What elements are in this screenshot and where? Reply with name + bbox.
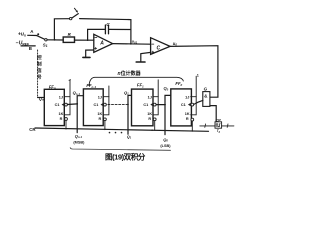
- flip-flop FF_0 box: [171, 89, 192, 126]
- svg-text:Q0: Q0: [163, 137, 168, 143]
- wire FF_n-1 JK tie: [103, 97, 109, 115]
- node Qn-1 label: [73, 90, 81, 96]
- wire FF_n reset stub: [65, 120, 67, 128]
- wire S2 to feedback corner: [80, 19, 131, 20]
- wire Qn-1 to FF_n clock: [77, 96, 83, 133]
- flip-flop FF_n-1 box: [83, 89, 103, 126]
- wire -Uref to contact B: [21, 45, 35, 47]
- wire FF_1 reset stub: [154, 121, 156, 131]
- wire FF_n-1 reset stub: [104, 121, 106, 130]
- node +ux input label: [18, 32, 26, 38]
- svg-text:控: 控: [37, 54, 42, 61]
- wire feedback right vertical: [130, 20, 132, 44]
- svg-text:A: A: [99, 41, 104, 47]
- wire FF_0 reset stub: [191, 121, 193, 131]
- svg-text:C1: C1: [94, 103, 99, 107]
- op-amp U1 integrator triangle: [94, 34, 113, 52]
- wire CR reset rail: [35, 128, 209, 131]
- svg-text:Qn: Qn: [39, 96, 44, 102]
- switch S1 label: [43, 42, 48, 48]
- node control dotted line: [37, 50, 39, 97]
- svg-text:1: 1: [197, 73, 199, 77]
- wire G bottom input: [210, 106, 216, 122]
- svg-text:n位计数器: n位计数器: [118, 70, 142, 77]
- wire +ux to contact A: [28, 34, 37, 36]
- clock CP waveform: [216, 124, 220, 127]
- wire S2 branch up: [54, 19, 69, 40]
- svg-text:S1: S1: [43, 42, 48, 48]
- node Q1 label: [124, 90, 129, 96]
- wire Qn to control line: [38, 97, 45, 99]
- node capacitor branch junction: [87, 39, 89, 41]
- svg-text:R: R: [60, 117, 63, 121]
- svg-text:1J: 1J: [98, 95, 102, 99]
- wire G output to FF_0 clock: [194, 100, 203, 104]
- svg-text:1J: 1J: [59, 95, 63, 99]
- switch S2 lever: [72, 14, 78, 18]
- node Q1 output label: [127, 135, 132, 140]
- svg-text:1K: 1K: [185, 112, 190, 116]
- svg-text:R: R: [186, 117, 189, 121]
- svg-text:G: G: [204, 87, 208, 92]
- svg-text:号: 号: [37, 74, 42, 81]
- svg-text:FFn-1: FFn-1: [86, 83, 96, 89]
- node CP lead ticks: [204, 124, 207, 128]
- svg-text:R: R: [99, 117, 102, 121]
- switch S2 control arrow: [74, 8, 77, 12]
- capacitor C plates: [104, 25, 106, 34]
- gate G AND box: [203, 92, 210, 107]
- svg-text:FFn: FFn: [49, 84, 56, 90]
- wire capacitor branch up: [88, 29, 106, 40]
- node Q0 output label: [163, 137, 168, 143]
- clock CP source box: [215, 122, 222, 128]
- wire Q1 down: [128, 95, 132, 134]
- flip-flop FF_1 box: [132, 89, 154, 126]
- resistor R: [63, 37, 74, 42]
- wire op-amp plus input: [86, 50, 94, 57]
- op-amp U2 comparator triangle: [151, 38, 171, 55]
- svg-text:Qn-1: Qn-1: [75, 133, 83, 139]
- op-amp U1 plus sign: [95, 47, 97, 49]
- node Qn-1 output label: [75, 133, 83, 139]
- svg-text:1K: 1K: [147, 112, 152, 116]
- wire comparator output: [170, 46, 218, 97]
- wire op-amp output: [113, 43, 151, 46]
- switch S1 lever: [37, 36, 45, 40]
- node control signal text: [37, 54, 42, 81]
- svg-text:R: R: [148, 117, 151, 121]
- svg-text:1J: 1J: [185, 95, 189, 99]
- node omitted stages dots: [109, 132, 123, 134]
- wire R to op-amp minus input: [75, 39, 94, 41]
- wire CP leads: [200, 125, 215, 127]
- op-amp U1 minus sign: [95, 36, 97, 38]
- node uo label: [173, 41, 178, 47]
- svg-text:(MSB): (MSB): [73, 140, 85, 144]
- svg-text:C1: C1: [181, 103, 186, 107]
- flip-flop FF_1 label: [137, 83, 144, 89]
- wire comparator plus input: [141, 52, 151, 61]
- flip-flop FF_n-1 label: [86, 83, 96, 89]
- node reset rail junctions: [65, 128, 193, 132]
- svg-text:信: 信: [37, 67, 42, 74]
- svg-text:C1: C1: [143, 103, 148, 107]
- svg-text:CR: CR: [29, 127, 36, 132]
- svg-text:FF1: FF1: [137, 83, 144, 89]
- flip-flop FF_n label: [49, 84, 56, 90]
- wire FF_0 JK tie: [191, 97, 197, 115]
- svg-text:图(19)双积分: 图(19)双积分: [105, 152, 146, 162]
- svg-text:1K: 1K: [59, 112, 64, 116]
- svg-text:C1: C1: [55, 103, 60, 107]
- svg-text:C: C: [157, 45, 161, 51]
- node T0 label: [217, 129, 221, 134]
- wire Q0 to FF_1 clock: [165, 95, 171, 134]
- switch S1 pole: [45, 39, 47, 41]
- node Qn label: [39, 96, 44, 102]
- svg-text:Q1: Q1: [127, 135, 132, 140]
- wire FF_n JK tie: [64, 97, 70, 115]
- svg-text:C: C: [106, 22, 110, 28]
- flip-flop FF_n box: [44, 89, 64, 125]
- node feedback output junction: [130, 43, 132, 45]
- node counter brace: [89, 77, 183, 85]
- wire pole to node: [47, 39, 63, 41]
- op-amp U2 plus sign: [152, 51, 154, 53]
- svg-text:(LSB): (LSB): [160, 144, 171, 148]
- svg-text:Q0: Q0: [164, 86, 169, 92]
- switch S2 pole: [70, 17, 72, 19]
- svg-text:B: B: [29, 46, 32, 51]
- flip-flop FF_0 label: [175, 81, 182, 87]
- svg-text:制: 制: [37, 61, 42, 68]
- ground integrator: [83, 56, 90, 58]
- op-amp U2 minus sign: [152, 43, 154, 45]
- node Q0 label: [164, 86, 169, 92]
- wire FF_1 JK tie: [153, 97, 158, 115]
- ground comparator: [136, 61, 145, 63]
- svg-text:1K: 1K: [97, 112, 102, 116]
- wire dashed Q1 to FF_n-1 clock: [106, 103, 128, 105]
- svg-text:1J: 1J: [148, 95, 152, 99]
- wire capacitor to feedback corner: [109, 28, 131, 30]
- node junction S2 branch: [54, 39, 56, 41]
- node -Uref input label: [16, 41, 29, 47]
- svg-text:FF0: FF0: [175, 81, 182, 87]
- node uo1 label: [132, 40, 138, 45]
- node bottom rule: [70, 148, 170, 151]
